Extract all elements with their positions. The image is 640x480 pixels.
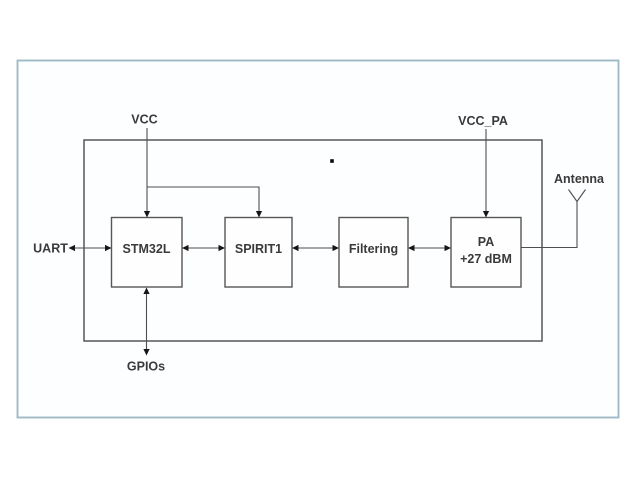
svg-text:GPIOs: GPIOs: [127, 360, 165, 374]
block SPIRIT1: [225, 218, 292, 288]
wire STM32L to GPIOs (bidirectional): [146, 292, 148, 350]
wire VCC branch to SPIRIT1: [147, 187, 259, 212]
wire STM32L to SPIRIT1 (bidirectional): [186, 247, 221, 249]
svg-text:STM32L: STM32L: [123, 242, 171, 256]
block Filtering: [339, 218, 408, 288]
svg-text:VCC: VCC: [131, 113, 157, 127]
svg-text:Antenna: Antenna: [554, 172, 605, 186]
svg-text:VCC_PA: VCC_PA: [458, 114, 508, 128]
enclosure rectangle (module boundary): [84, 140, 542, 341]
wire SPIRIT1 to Filtering (bidirectional): [296, 247, 335, 249]
svg-text:PA: PA: [478, 235, 494, 249]
svg-text:Filtering: Filtering: [349, 242, 398, 256]
wire VCC_PA to PA: [485, 129, 487, 212]
svg-text:UART: UART: [33, 242, 68, 256]
block PA +27 dBM: [451, 218, 521, 288]
stray dot artifact: [330, 159, 334, 163]
svg-text:+27 dBM: +27 dBM: [460, 252, 512, 266]
wire PA to antenna: [521, 202, 577, 248]
wire UART to STM32L (bidirectional): [73, 247, 107, 249]
wire Filtering to PA (bidirectional): [412, 247, 447, 249]
block STM32L: [112, 218, 183, 288]
outer frame: [18, 61, 619, 418]
antenna symbol: [569, 190, 586, 202]
wire VCC to STM32L: [146, 128, 148, 212]
svg-text:SPIRIT1: SPIRIT1: [235, 242, 282, 256]
